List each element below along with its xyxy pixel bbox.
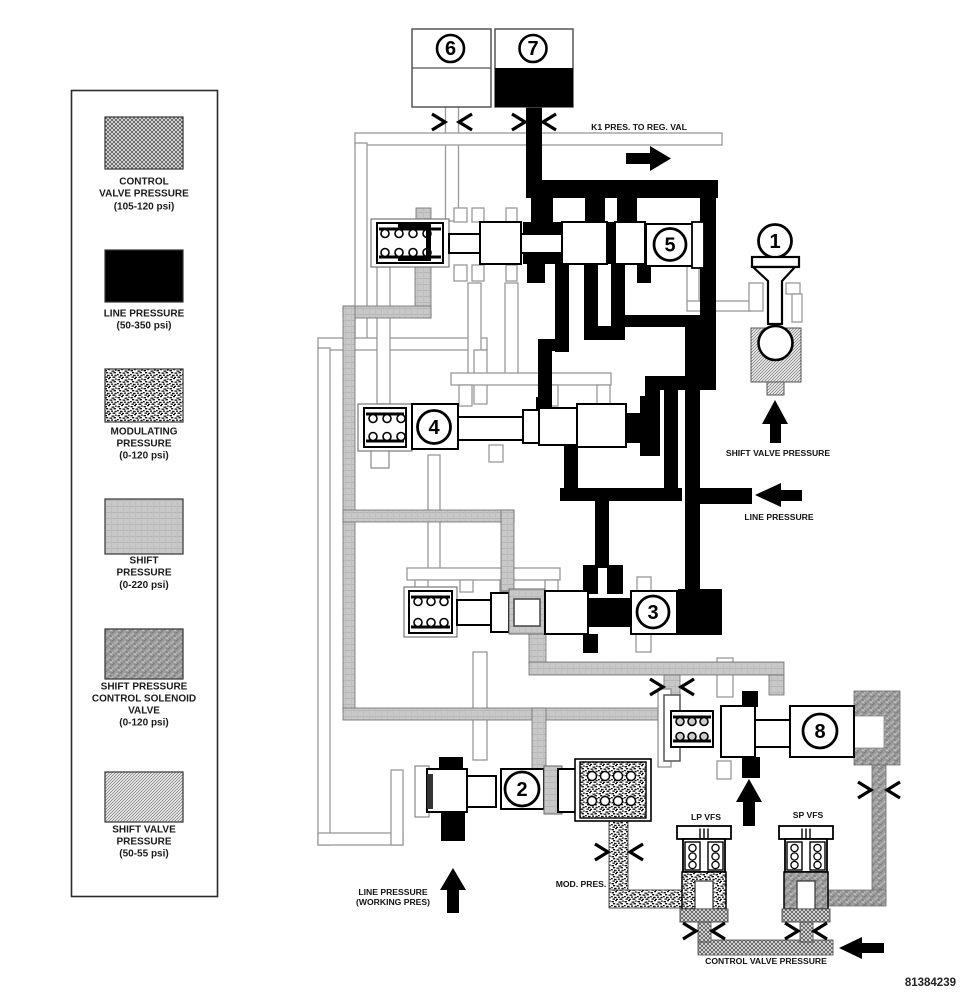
valve 1 poppet valve [752, 257, 799, 324]
wire: channel valve 4 to valve 3 manifold [428, 455, 440, 570]
svg-text:PRESSURE: PRESSURE [116, 568, 171, 579]
svg-text:VALVE PRESSURE: VALVE PRESSURE [99, 189, 189, 200]
svg-text:4: 4 [428, 417, 440, 439]
wire: jog right upper [611, 315, 700, 327]
wire: middle leg down to junction [664, 390, 678, 501]
svg-text:(0-120 psi): (0-120 psi) [119, 451, 168, 462]
svg-text:(WORKING PRES): (WORKING PRES) [356, 897, 430, 907]
wire: far-left vertical channel [318, 348, 330, 845]
wire: control valve pressure stub SP VFS [800, 918, 813, 942]
svg-text:6: 6 [445, 38, 456, 60]
wire: gray stub into valve 8 left [664, 675, 680, 697]
svg-text:(50-350 psi): (50-350 psi) [116, 321, 171, 332]
wire: channel valve 5 to valve 1 down [687, 266, 699, 303]
wire: manifold stub A [459, 385, 472, 406]
wire: valve 8 bottom port [742, 757, 760, 778]
wire: gray horizontal to left main [343, 306, 431, 318]
svg-text:K1 PRES. TO REG. VAL: K1 PRES. TO REG. VAL [591, 122, 687, 132]
wire: drop into valve 4 top [538, 351, 552, 400]
svg-text:CONTROL: CONTROL [119, 177, 168, 188]
wire: valve 8 right gray bracket [854, 691, 900, 765]
wire: valve 4 right end protrusion [627, 413, 640, 443]
svg-text:LINE PRESSURE: LINE PRESSURE [744, 512, 814, 522]
wire: gray drop into valve 3 [501, 510, 514, 591]
svg-text:5: 5 [664, 235, 675, 257]
wire: valve 4 top port [536, 397, 552, 411]
svg-text:CONTROL SOLENOID: CONTROL SOLENOID [92, 694, 196, 705]
valve 8 spring [671, 711, 713, 747]
shift pressure swatch [105, 499, 183, 591]
wire: line pressure top bar [526, 180, 718, 198]
wire: gray drop to valve 2 [532, 708, 546, 770]
wire: modulating pressure drop from valve 2 [609, 821, 628, 902]
orifice into valve 8 left [650, 679, 694, 695]
orifice below valve 7 [512, 114, 556, 130]
svg-text:SHIFT VALVE PRESSURE: SHIFT VALVE PRESSURE [726, 448, 831, 458]
wire: channel left vertical from K1 line [355, 143, 367, 340]
valve 5 regulator valve [371, 219, 704, 268]
svg-text:VALVE: VALVE [128, 706, 160, 717]
valve 1 shift valve pressure chamber [751, 328, 801, 382]
wire: solenoid pressure vertical from valve 8 [872, 765, 886, 902]
wire: junction horizontal [560, 488, 682, 501]
wire: drop to valve 3 top [595, 498, 609, 568]
svg-text:(50-55 psi): (50-55 psi) [119, 849, 168, 860]
wire: stub above valve 8 [717, 658, 733, 697]
wire: drop into valve 4 right block [645, 390, 660, 400]
wire: valve 4 bottom port down [564, 442, 578, 501]
wire: white tab above valve 3 [637, 577, 651, 591]
control valve pressure swatch [99, 117, 189, 213]
wire: bottom channel to valve 2 [318, 833, 403, 845]
LP VFS solenoid [677, 826, 731, 922]
wire: channel valve 5 to valve 1 horizontal [687, 301, 751, 311]
wire: valve 5 bottom port A [527, 264, 545, 283]
svg-text:1: 1 [769, 231, 780, 253]
wire: valve 3 top port A [583, 565, 598, 594]
svg-text:(0-220 psi): (0-220 psi) [119, 580, 168, 591]
wire: tab below valve 5 C [506, 265, 517, 281]
wire: valve 3 manifold stub B [460, 580, 473, 592]
svg-text:PRESSURE: PRESSURE [116, 439, 171, 450]
wire: line pressure right vertical upper [700, 196, 716, 390]
wire: valve 5 bottom port C down [584, 264, 598, 340]
orifice below LP VFS [683, 923, 725, 939]
svg-text:LINE PRESSURE: LINE PRESSURE [104, 309, 185, 320]
valve 8 number [803, 714, 837, 748]
wire: valve 5 port E stub [637, 264, 651, 283]
valve 1 number [759, 225, 792, 258]
wire: gray main left vertical [343, 306, 355, 712]
orifice below SP VFS [785, 923, 827, 939]
svg-text:3: 3 [647, 602, 658, 624]
valve 2 assembly [415, 759, 651, 821]
wire: valve 2 bottom port [441, 812, 465, 841]
svg-text:81384239: 81384239 [905, 977, 956, 989]
svg-text:MODULATING: MODULATING [110, 427, 177, 438]
wire: stub below valve 8 [717, 761, 731, 779]
modulating pressure swatch [105, 369, 183, 462]
valve 4 assembly [358, 404, 626, 468]
wire: valve 3 top port B [607, 565, 623, 594]
wire: valve 1 left port [749, 283, 763, 311]
valve 3 assembly [404, 587, 677, 637]
wire: tab below valve 4 [489, 445, 503, 462]
wire: valve 1 right port [786, 283, 800, 294]
line pressure swatch [104, 250, 185, 332]
wire: tab below valve 5 A [454, 265, 467, 281]
wire: valve 3 manifold stub D [545, 580, 558, 592]
wire: modulating pressure run to LP VFS [609, 890, 683, 908]
wire: gray branch to valve 3 [343, 510, 514, 522]
valve 1 chamber stem [767, 382, 784, 395]
svg-text:PRESSURE: PRESSURE [116, 837, 171, 848]
valve 6 shift solenoid box [412, 29, 491, 107]
valve 3 spring [409, 591, 452, 633]
wire: jog right to port D column [584, 326, 625, 340]
wire: manifold stub B [545, 385, 558, 406]
wire: bar stub into valve 5 C [617, 196, 637, 222]
wire: valve 2 top port [439, 757, 463, 772]
wire: line pressure from valve 7 [526, 105, 542, 182]
wire: line pressure main vertical [685, 327, 700, 592]
arrow up into valve 8 [736, 779, 762, 826]
wire: gray stub into valve 8 top [769, 675, 784, 695]
svg-text:LP VFS: LP VFS [691, 812, 721, 822]
orifice on modulating line [595, 844, 643, 860]
wire: channel valve 3 to valve 2 [473, 652, 487, 760]
wire: manifold above valve 3 [407, 568, 560, 580]
valve 2 number [505, 772, 539, 806]
arrow line pressure working up [440, 868, 466, 913]
svg-text:SP VFS: SP VFS [793, 810, 824, 820]
wire: gray tab above valve 5 spring [416, 208, 431, 222]
valve 4 spring [364, 408, 406, 447]
valve 5 spring [377, 223, 443, 263]
wire: solenoid pressure into SP VFS [817, 890, 886, 906]
wire: channel valve 5 to valve 4 manifold A [468, 283, 481, 375]
wire: channel from valve 6 down to valve 5 [446, 104, 459, 221]
wire: bar stub into valve 5 B [585, 196, 605, 222]
wire: manifold stub C [597, 385, 610, 406]
wire: valve 5 bottom port B down [555, 264, 569, 352]
wire: gray drop below valve 3 [529, 634, 546, 664]
shift pressure control solenoid swatch [92, 629, 196, 729]
arrow line pressure left [755, 483, 802, 507]
wire: valve 1 right port drop [792, 294, 802, 322]
svg-text:8: 8 [814, 721, 825, 743]
svg-text:SHIFT: SHIFT [130, 556, 159, 567]
svg-text:7: 7 [527, 38, 538, 60]
svg-text:LINE PRESSURE: LINE PRESSURE [358, 887, 428, 897]
svg-text:MOD. PRES.: MOD. PRES. [556, 879, 607, 889]
wire: drop from horizontal channel to valve 4 [474, 350, 487, 404]
arrow shift valve pressure up [762, 400, 788, 443]
wire: tab below valve 5 B [472, 265, 484, 281]
valve 5 number [654, 229, 686, 261]
wire: manifold above valve 4 [451, 373, 611, 385]
legend box [72, 91, 218, 897]
wire: riser into valve 2 left end [391, 770, 403, 845]
wire: channel valve 5 to valve 4 spring [377, 267, 390, 404]
wire: jog left to valve 4 [538, 339, 569, 351]
wire: line pressure inlet horizontal [698, 488, 752, 504]
arrow control valve pressure left [839, 937, 884, 959]
wire: horizontal channel to valve 4 manifold [318, 338, 487, 350]
wire: control valve pressure stub LP VFS [698, 920, 711, 942]
wire: jog left to valve 4 right block [645, 376, 716, 390]
SP VFS solenoid [779, 826, 833, 922]
wire: valve 3 manifold stub A [415, 580, 428, 592]
wire: tab above valve 5 B [472, 208, 484, 222]
svg-text:(0-120 psi): (0-120 psi) [119, 718, 168, 729]
valve 8 assembly [658, 689, 854, 767]
svg-text:(105-120 psi): (105-120 psi) [114, 202, 175, 213]
wire: valve 4 right end block [640, 396, 660, 456]
wire: bar stub into valve 5 A [531, 196, 553, 222]
wire: valve 3 right end block [678, 589, 722, 635]
valve 7 shift solenoid box [495, 29, 573, 107]
valve 4 number [418, 411, 451, 444]
svg-text:SHIFT PRESSURE: SHIFT PRESSURE [101, 682, 188, 693]
wire: gray run below valve 3 to valve 8 [529, 662, 784, 675]
shift valve pressure swatch [105, 772, 183, 860]
svg-text:2: 2 [516, 779, 527, 801]
svg-text:CONTROL VALVE PRESSURE: CONTROL VALVE PRESSURE [705, 956, 827, 966]
arrow K1 flow right [626, 146, 671, 171]
wire: channel valve 5 to valve 4 manifold B [505, 283, 518, 375]
wire: tab above valve 5 A [454, 208, 467, 222]
wire: valve 5 port D down [611, 264, 625, 340]
wire: K1 pressure channel to regulator valve [355, 133, 722, 145]
orifice below valve 6 [432, 114, 472, 130]
wire: valve 3 manifold stub C [500, 580, 513, 592]
wire: control valve pressure bottom channel [698, 940, 833, 955]
wire: gray run to valve 8 spring [343, 708, 671, 720]
wire: white stub below valve 3 [636, 634, 651, 652]
wire: gray drop from valve 5 spring [415, 266, 431, 318]
valve 1 ball [759, 326, 793, 360]
wire: tab above valve 5 C [506, 208, 517, 222]
svg-text:SHIFT VALVE: SHIFT VALVE [112, 825, 176, 836]
wire: valve 3 bottom port [583, 634, 598, 653]
orifice on solenoid pressure line [858, 782, 900, 798]
wire: valve 8 top port [742, 691, 758, 707]
valve 3 number [637, 596, 669, 628]
